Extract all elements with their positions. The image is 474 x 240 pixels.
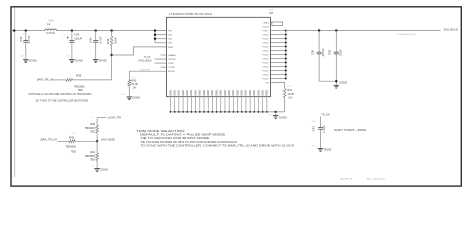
wire VIN pins vertical [154,31,156,43]
svg-text:VOUT: VOUT [263,46,270,48]
svg-text:TBD0603: TBD0603 [65,146,76,149]
svg-text:LIGHT_TRI: LIGHT_TRI [108,116,122,120]
svg-text:1104: 1104 [22,34,26,36]
svg-text:BY TYING TO THE CONTROLLER SHU: BY TYING TO THE CONTROLLER SHUTDOWN [36,98,88,102]
svg-text:R40: R40 [69,136,74,140]
svg-text:1123: 1123 [312,121,316,123]
svg-text:R36: R36 [76,73,81,77]
svg-text:GND: GND [227,90,231,96]
pins VOUT [270,30,285,32]
svg-text:C40: C40 [89,37,93,43]
capacitor C30 [25,31,27,41]
svg-text:TK_SS: TK_SS [144,55,150,59]
svg-text:GND: GND [260,90,264,96]
capacitor C39 [335,31,337,53]
svg-text:VOUT: VOUT [263,34,270,36]
svg-text:GND: GND [265,90,269,96]
svg-text:C39: C39 [328,50,332,56]
wire GND bus [171,111,285,113]
svg-text:DGND: DGND [100,167,108,171]
svg-text:LIGHT_MODE: LIGHT_MODE [101,138,115,142]
ground DGND at x=95.7 [93,59,99,61]
svg-text:11: 11 [91,117,93,119]
svg-text:Rev: prerelease: Rev: prerelease [367,177,386,180]
inductor L2 [45,29,57,31]
svg-text:SYNC: SYNC [168,63,174,65]
svg-text:4.7UF: 4.7UF [98,36,102,44]
svg-text:GND: GND [244,90,248,96]
svg-text:LIGHT/TRI: LIGHT/TRI [140,69,150,71]
resistor R36 [51,79,66,81]
svg-text:11: 11 [92,165,94,167]
ground DGND at x=320.5 [318,148,324,150]
svg-text:R47: R47 [287,88,292,92]
svg-text:GND: GND [177,90,181,96]
svg-text:GND: GND [202,90,206,96]
svg-text:GND: GND [223,90,227,96]
svg-text:DEFAULT: FLOATING = PULSE-SKIP: DEFAULT: FLOATING = PULSE-SKIP MODE [140,134,226,137]
svg-text:TRIM NODE SELECTION:: TRIM NODE SELECTION: [136,130,185,133]
svg-text:VOUT: VOUT [263,74,270,76]
ground DGND at x=336.3 [334,84,340,86]
svg-text:TBD0603: TBD0603 [84,127,95,130]
capacitor C34 [71,31,73,41]
wire to RUN pin [112,47,167,55]
svg-text:C43: C43 [312,126,316,132]
svg-text:220R: 220R [48,21,54,23]
svg-text:GND: GND [248,90,252,96]
pin BIAS with component box [270,22,272,24]
resistor R40 [58,140,69,142]
svg-text:LTM4650IY#PBF BUCK REG: LTM4650IY#PBF BUCK REG [169,12,212,16]
svg-text:VOUT: VOUT [263,50,270,52]
svg-text:DGND: DGND [324,147,332,151]
node VIN rail junctions [13,29,15,31]
capacitor C38 [318,31,320,53]
svg-text:GND: GND [219,90,223,96]
svg-text:GND: GND [172,90,176,96]
svg-text:C38: C38 [310,50,314,56]
inner border line left [14,8,16,177]
svg-text:VIN: VIN [168,31,172,33]
svg-text:R42: R42 [132,79,137,83]
svg-text:GND: GND [252,90,256,96]
svg-text:TRKSS: TRKSS [168,59,176,61]
resistor R39 [96,118,98,126]
svg-text:1103: 1103 [132,77,136,79]
node shared ground junction [335,80,337,82]
svg-text:VIN: VIN [168,43,172,45]
svg-text:VOUT: VOUT [263,58,270,60]
svg-text:U8: U8 [269,11,273,15]
wire VOUT rail [286,30,441,32]
pins GND bottom [170,97,172,112]
svg-text:VOUT: VOUT [263,78,270,80]
wire VOUT bus [285,31,287,79]
svg-text:VOUT: VOUT [263,70,270,72]
svg-text:100UF: 100UF [321,48,325,57]
svg-text:TO SYNC WITH THE CONTROLLER, C: TO SYNC WITH THE CONTROLLER, CONNECT TO … [140,145,294,148]
svg-text:L2: L2 [47,22,50,26]
svg-text:PLLIN: PLLIN [263,26,269,28]
ground DGND at x=97.1 [94,168,100,170]
svg-text:GND: GND [214,90,218,96]
svg-text:1106: 1106 [121,94,125,96]
node mode junction [110,54,112,56]
svg-text:GND: GND [206,90,210,96]
svg-text:TBD0603: TBD0603 [74,85,85,88]
svg-text:SYNC_BUCK: SYNC_BUCK [138,59,152,63]
svg-text:61.9K: 61.9K [132,82,139,86]
svg-text:1123: 1123 [312,146,316,148]
svg-text:22UF: 22UF [338,49,342,56]
svg-text:1.5A BUCK5V0: 1.5A BUCK5V0 [397,33,417,36]
svg-text:0.47UH: 0.47UH [46,31,55,35]
svg-text:VIN: VIN [168,35,172,37]
svg-text:15.4K: 15.4K [287,92,294,96]
op-amp U8 LTM4650 module [167,17,271,96]
svg-text:TBD: TBD [90,131,95,134]
svg-text:BIAS: BIAS [264,21,270,24]
svg-text:TBD0603: TBD0603 [84,155,95,158]
svg-text:BAR_TRI_IO: BAR_TRI_IO [37,78,53,82]
svg-text:BAR_TRI_IO: BAR_TRI_IO [41,138,57,142]
svg-text:TIE TO GROUND FOR BURST MODE: TIE TO GROUND FOR BURST MODE [140,137,210,140]
svg-text:DGND: DGND [340,81,348,85]
svg-text:SOFT START ~10MS: SOFT START ~10MS [334,129,366,132]
svg-text:GND: GND [235,90,239,96]
svg-text:1105: 1105 [268,114,272,116]
svg-text:VOUT: VOUT [263,42,270,44]
svg-text:RUN: RUN [168,47,173,49]
ground DGND at x=129.3 [127,96,133,98]
svg-text:GND: GND [181,90,185,96]
svg-text:GND: GND [210,90,214,96]
svg-text:VOUT: VOUT [263,30,270,32]
svg-text:GND: GND [193,90,197,96]
svg-text:GND: GND [198,90,202,96]
svg-text:0.1UF: 0.1UF [322,125,326,133]
svg-text:Sheet: 9: Sheet: 9 [340,177,353,180]
ground DGND at x=275.6 [273,115,279,117]
svg-text:1: 1 [70,75,71,77]
svg-text:TBD: TBD [78,89,83,92]
svg-text:R44: R44 [106,38,110,44]
svg-text:DGND: DGND [279,115,287,119]
capacitor C40 [95,31,97,41]
pin stub COMP [161,66,167,68]
svg-text:VIN: VIN [168,39,172,41]
svg-text:5V0_BUCK: 5V0_BUCK [444,28,459,32]
resistor R44 pullup [111,31,113,37]
svg-text:MODE: MODE [168,71,175,73]
node VIN pin junctions [154,29,156,31]
svg-text:VOUT: VOUT [263,38,270,40]
net label LIGHT_TRI [97,117,106,119]
svg-text:DGND: DGND [99,59,107,63]
svg-text:TIE VOLTAGE DIVIDER OF 25% TO: TIE VOLTAGE DIVIDER OF 25% TO 45% FOR FO… [140,141,237,144]
svg-text:C34: C34 [74,33,79,37]
svg-text:GND: GND [185,90,189,96]
svg-text:TBD: TBD [90,158,95,161]
ground DGND at x=25.8 [23,59,29,61]
svg-text:100UF: 100UF [74,37,82,41]
svg-text:1104: 1104 [20,56,24,58]
svg-text:R41: R41 [90,150,95,154]
pin stub SHARE [161,54,167,56]
svg-text:DGND: DGND [75,59,83,63]
node GND bus to ground [274,111,276,113]
svg-text:GND: GND [189,90,193,96]
svg-text:GND: GND [240,90,244,96]
svg-text:DGND: DGND [133,96,141,100]
sheet border frame [11,7,461,186]
svg-text:SHARE: SHARE [168,54,176,57]
svg-text:COMP: COMP [168,67,175,69]
wire VIN rail top-left [12,30,45,32]
svg-text:TK_SS: TK_SS [321,113,329,117]
svg-text:R39: R39 [90,122,95,126]
svg-text:P1: P1 [63,34,65,36]
svg-text:1123: 1123 [287,86,291,88]
node rail junctions [318,29,320,31]
svg-text:GND: GND [256,90,260,96]
svg-text:4.7UF: 4.7UF [27,35,31,43]
ground DGND at x=71.9 [69,59,75,61]
resistor R42 [128,71,130,80]
svg-text:VOUT: VOUT [263,54,270,56]
svg-text:1104: 1104 [72,133,76,135]
svg-text:DGND: DGND [29,59,37,63]
svg-text:VOUT: VOUT [263,62,270,64]
svg-text:C30: C30 [19,36,23,42]
wire VIN rail to IC [57,30,167,32]
wire mode pin [129,70,166,72]
svg-text:TBD: TBD [71,150,76,153]
svg-text:1104: 1104 [66,56,70,58]
svg-text:OPTIONALLY ALLOW FINE CONTROL: OPTIONALLY ALLOW FINE CONTROL OF SHUTDOW… [28,92,91,96]
svg-text:GND: GND [168,90,172,96]
node LIGHT_MODE [96,140,98,142]
svg-text:VOUT: VOUT [263,66,270,68]
svg-text:GND: GND [231,90,235,96]
resistor R41 [96,141,98,153]
svg-text:100K: 100K [113,37,117,44]
